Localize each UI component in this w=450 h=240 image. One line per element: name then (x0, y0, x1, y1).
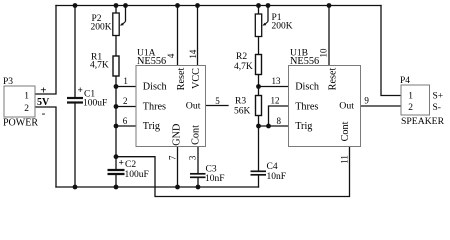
svg-text:NE556: NE556 (290, 56, 319, 67)
wire U1B pin 9 out to P4 (361, 105, 402, 107)
svg-text:200K: 200K (272, 22, 293, 32)
svg-text:56K: 56K (234, 107, 251, 117)
svg-text:C4: C4 (267, 162, 278, 172)
svg-text:100uF: 100uF (83, 99, 107, 109)
capacitor C2 (108, 159, 149, 181)
svg-text:Cont: Cont (340, 121, 351, 141)
capacitor C3 (190, 165, 225, 185)
svg-text:2: 2 (123, 96, 128, 106)
node U1A pin14 junction (195, 3, 200, 8)
svg-text:SPEAKER: SPEAKER (401, 116, 445, 127)
connector P3 (3, 77, 38, 129)
svg-text:1: 1 (123, 76, 128, 86)
svg-text:-: - (42, 108, 46, 120)
wire C1 bottom branch (74, 103, 76, 188)
svg-text:1: 1 (24, 92, 29, 102)
wire P2 top stub (115, 6, 117, 14)
svg-text:Out: Out (339, 101, 354, 112)
svg-text:5V: 5V (37, 97, 50, 108)
svg-text:8: 8 (277, 116, 282, 126)
wire pin13 node to R3 (258, 87, 260, 96)
svg-text:S+: S+ (433, 92, 444, 102)
wire R2 to pin13 node (258, 75, 260, 87)
op-amp U1A (556 timer half) (136, 49, 206, 147)
svg-text:10: 10 (319, 48, 329, 58)
svg-text:6: 6 (123, 116, 128, 126)
svg-text:Thres: Thres (143, 102, 166, 113)
svg-text:14: 14 (188, 49, 198, 59)
svg-text:+: + (78, 86, 83, 96)
wire U1A pin 1 (116, 86, 136, 88)
wire C2 bottom (115, 174, 117, 187)
svg-text:11: 11 (339, 155, 349, 164)
op-amp U1B (556 timer half) (289, 49, 361, 147)
wire left rail drop to 5V node (35, 6, 56, 95)
potentiometer P2 (91, 6, 126, 36)
wire P3 pin2 to ground rail (35, 107, 56, 187)
connector P4 (400, 76, 445, 127)
wire node A vertical (pins 1,2,6 to C2) (115, 87, 117, 157)
svg-text:3: 3 (187, 155, 197, 160)
wire U1A pin 4 reset (177, 6, 179, 66)
node U1A pin4 junction (175, 3, 180, 8)
wire U1A pin 14 vcc (197, 6, 199, 66)
svg-text:P3: P3 (3, 77, 13, 87)
wire C4 bottom to ground rail (258, 175, 260, 187)
svg-text:1: 1 (408, 92, 413, 102)
node B pin13 junction (256, 84, 261, 89)
node C pin8 junction (256, 124, 261, 129)
node A pin1 junction (114, 84, 119, 89)
svg-text:S-: S- (433, 103, 441, 113)
node P2 top junction (114, 3, 119, 8)
svg-text:+: + (40, 84, 46, 96)
svg-text:Trig: Trig (295, 121, 312, 132)
wire pin8 node to C4 (258, 126, 260, 171)
wire C1 top branch (74, 6, 76, 99)
svg-text:10nF: 10nF (205, 174, 225, 184)
svg-text:R2: R2 (236, 52, 247, 62)
node A pin6 junction (114, 124, 119, 129)
resistor R1 (90, 53, 119, 77)
svg-text:4,7K: 4,7K (234, 62, 253, 72)
svg-text:2: 2 (408, 103, 413, 113)
wire U1B pin 12 (269, 106, 289, 126)
wire C2 top (115, 157, 117, 170)
wire U1B pin 10 reset (328, 6, 330, 66)
wire bottom ground rail (56, 186, 259, 188)
svg-text:9: 9 (364, 96, 369, 106)
svg-text:13: 13 (272, 76, 282, 86)
svg-text:7: 7 (167, 155, 177, 160)
svg-text:200K: 200K (91, 23, 112, 33)
node C1 ground junction (73, 185, 78, 190)
wire top power rail (56, 5, 381, 7)
wire R1 to node A (115, 76, 117, 87)
svg-text:100uF: 100uF (125, 170, 149, 180)
svg-text:C2: C2 (125, 160, 136, 170)
capacitor C4 (251, 162, 287, 182)
resistor R3 (234, 96, 262, 117)
resistor R2 (234, 52, 262, 75)
svg-text:Reset: Reset (176, 68, 187, 91)
svg-text:Thres: Thres (295, 102, 318, 113)
svg-text:+: + (119, 159, 124, 169)
wire U1A pin 3 to C3 (197, 147, 199, 174)
node A C2 branch junction (114, 154, 119, 159)
capacitor C1 (67, 86, 107, 109)
potentiometer P1 (255, 6, 292, 37)
svg-text:10nF: 10nF (267, 172, 287, 182)
svg-text:5: 5 (215, 96, 220, 106)
wire R3 to pin8 node (258, 116, 260, 127)
node P1 top junction (256, 3, 261, 8)
wire U1B pin 8 (259, 125, 289, 127)
svg-text:12: 12 (271, 96, 280, 106)
node C1 top junction (73, 3, 78, 8)
wire U1B pin 13 (259, 86, 289, 88)
node A pin2 junction (114, 104, 119, 109)
svg-text:NE556: NE556 (137, 56, 166, 67)
wire U1A pin 5 out stub (206, 105, 229, 107)
svg-text:C3: C3 (206, 165, 217, 175)
wire C3 bottom (197, 177, 199, 187)
svg-text:VCC: VCC (191, 68, 202, 89)
svg-text:P4: P4 (400, 76, 410, 86)
wire node A to U1B Cont pin 11 (116, 147, 350, 197)
node C pin12 junction (266, 124, 271, 129)
wire top rail to P4 pin 1 (381, 6, 401, 96)
wire P1 to R2 (258, 36, 260, 55)
svg-text:Cont: Cont (190, 125, 201, 145)
node pin7 ground junction (175, 185, 180, 190)
node P1 wiper junction (266, 3, 271, 8)
node C3 ground junction (196, 185, 201, 190)
svg-text:Reset: Reset (327, 68, 338, 91)
node U1B pin10 junction (327, 3, 332, 8)
svg-text:R3: R3 (235, 97, 246, 107)
wire P1 top stub (258, 6, 260, 15)
svg-text:2: 2 (24, 104, 29, 114)
wire U1A pin 2 (116, 106, 136, 108)
svg-text:Disch: Disch (143, 82, 167, 93)
svg-text:Trig: Trig (143, 121, 160, 132)
node C2 ground junction (114, 185, 119, 190)
wire U1A pin 7 gnd (177, 147, 179, 188)
svg-text:Out: Out (186, 100, 201, 111)
svg-text:4: 4 (166, 53, 176, 58)
svg-text:GND: GND (171, 124, 182, 146)
svg-text:POWER: POWER (3, 118, 38, 129)
svg-text:Disch: Disch (295, 82, 319, 93)
wire U1A pin 6 (116, 125, 136, 127)
wire P2 to R1 (115, 36, 117, 57)
svg-text:4,7K: 4,7K (90, 60, 109, 70)
node P2 wiper junction (123, 3, 128, 8)
